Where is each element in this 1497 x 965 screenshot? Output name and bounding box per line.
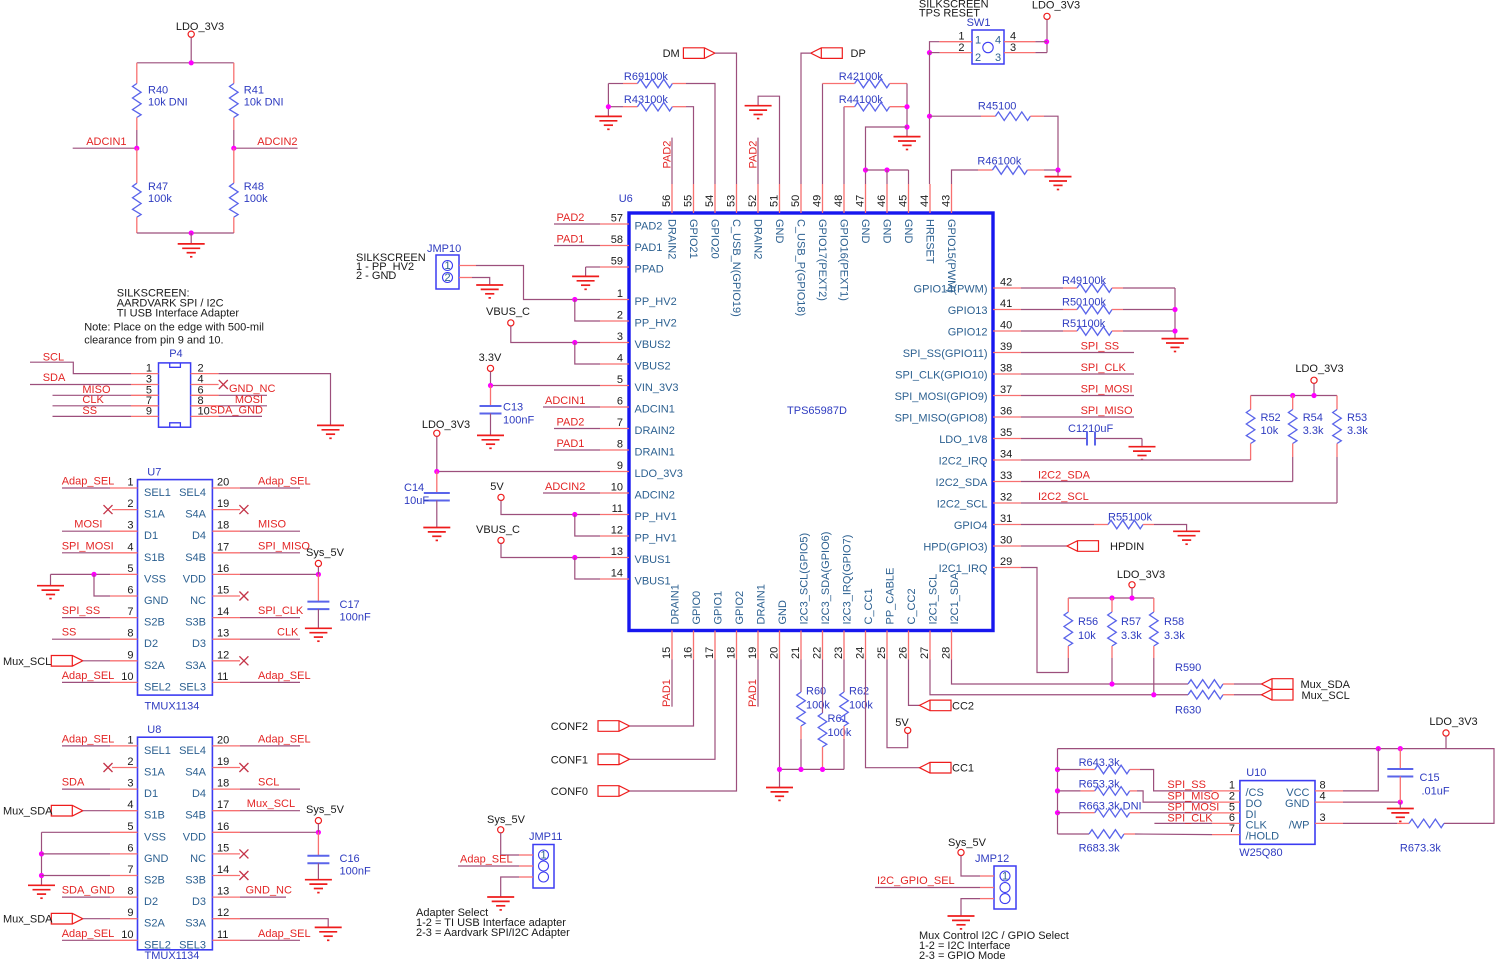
svg-text:8: 8 — [1320, 779, 1326, 791]
svg-text:SEL3: SEL3 — [179, 681, 206, 693]
svg-text:20: 20 — [769, 647, 781, 659]
svg-text:5V: 5V — [490, 481, 504, 493]
svg-text:11: 11 — [217, 929, 228, 941]
port flag CONF1 — [598, 754, 630, 765]
svg-text:Adap_SEL: Adap_SEL — [62, 476, 115, 488]
svg-text:100nF: 100nF — [340, 612, 371, 624]
junction VBUS1 junction — [572, 555, 577, 560]
junction C15 tap — [1398, 746, 1403, 751]
svg-text:100nF: 100nF — [503, 415, 534, 427]
svg-text:24: 24 — [855, 647, 867, 659]
junction R45/R46 junction — [1055, 167, 1060, 172]
wire SPI_SS to U7.7 — [62, 617, 110, 619]
resistor body R58 — [1150, 612, 1159, 646]
resistor body R53 — [1333, 410, 1342, 444]
svg-text:Adap_SEL: Adap_SEL — [258, 733, 311, 745]
wire VCC to bus — [1343, 749, 1378, 791]
pin P4 pin 7 — [131, 405, 159, 407]
svg-text:R52: R52 — [1261, 412, 1281, 424]
svg-text:10: 10 — [121, 671, 133, 683]
wire SCL into P4.1 — [30, 362, 131, 373]
wire R55 to gnd — [1154, 525, 1187, 532]
junction R50 junction — [1172, 307, 1177, 312]
svg-text:GND: GND — [859, 219, 871, 244]
pin JMP11 pin 3 — [519, 876, 533, 878]
capacitor body C17 — [307, 602, 329, 610]
port flag Mux_SCL U7.9 — [51, 656, 83, 667]
capacitor C15 — [1399, 749, 1401, 769]
svg-text:GPIO4: GPIO4 — [954, 520, 988, 532]
wire U8 VSS down — [41, 832, 43, 885]
resistor R53 — [1336, 396, 1338, 410]
wire Adap_SEL U7.11 — [240, 681, 300, 683]
svg-text:4: 4 — [1010, 31, 1016, 43]
wire I2C1_SCL to Mux_SCL — [930, 660, 1188, 695]
svg-text:59: 59 — [611, 256, 623, 268]
svg-text:S2A: S2A — [144, 918, 165, 930]
svg-text:SS: SS — [82, 405, 97, 417]
pin U8 pin 12 — [212, 918, 240, 920]
no-connect X P4 pin 4 — [219, 380, 228, 389]
wire R64 to /CS — [1140, 770, 1212, 791]
ground JMP12 — [948, 916, 975, 929]
svg-text:34: 34 — [1000, 449, 1012, 461]
pin U6 pin 43 — [951, 184, 953, 213]
junction ADCIN1 tap — [134, 146, 139, 151]
wire Adap_SEL U7.20 — [240, 487, 300, 489]
svg-text:SPI_MOSI: SPI_MOSI — [1081, 384, 1133, 396]
no-connect X U8 pin 14 — [239, 871, 248, 880]
svg-text:I2C3_SCL(GPIO5): I2C3_SCL(GPIO5) — [799, 533, 811, 625]
wire ADCIN2 stub U6.10 — [543, 492, 600, 494]
pin U8 pin 6 — [110, 853, 138, 855]
svg-text:DRAIN1: DRAIN1 — [756, 584, 768, 624]
svg-text:S1A: S1A — [144, 767, 165, 779]
svg-text:C15: C15 — [1420, 772, 1440, 784]
wire I2C2_SCL to R53 — [1021, 502, 1337, 504]
pin P4 pin 2 — [191, 373, 219, 375]
svg-text:GND: GND — [144, 853, 169, 865]
svg-text:7: 7 — [1229, 823, 1235, 835]
svg-text:9: 9 — [127, 649, 133, 661]
svg-text:U7: U7 — [147, 467, 161, 479]
ground U10 GND — [1387, 809, 1414, 822]
svg-text:JMP11: JMP11 — [529, 831, 562, 843]
svg-text:SDA: SDA — [43, 372, 66, 384]
resistor R56 — [1067, 598, 1069, 612]
pin U6 pin 51 — [779, 184, 781, 213]
svg-text:50: 50 — [790, 195, 802, 207]
svg-text:7: 7 — [617, 417, 623, 429]
wire R68 to /HOLD — [1135, 833, 1212, 836]
wire R64 left — [1058, 769, 1081, 771]
svg-text:1: 1 — [540, 850, 546, 862]
port flag Mux_SDA — [1262, 679, 1294, 690]
pin U6 pin 39 — [993, 352, 1021, 354]
pin U8 pin 3 — [110, 788, 138, 790]
pin U10 pin 8 — [1315, 790, 1343, 792]
svg-text:37: 37 — [1000, 384, 1012, 396]
svg-text:Mux_SCL: Mux_SCL — [3, 656, 51, 668]
svg-text:Mux_SCL: Mux_SCL — [247, 798, 295, 810]
wire PP_HV2 to pin2 — [575, 300, 600, 322]
svg-text:17: 17 — [217, 799, 229, 811]
svg-text:7: 7 — [127, 864, 133, 876]
pin U6 pin 13 — [600, 557, 629, 559]
wire CONF1 to pin — [630, 660, 716, 760]
wire pin22 to R61 — [822, 660, 824, 714]
wire pin21 to R60 — [800, 660, 802, 693]
pin U7 pin 18 — [212, 530, 240, 532]
wire divider top bus — [137, 62, 234, 64]
pin U6 pin 3 — [600, 342, 629, 344]
wire GND pins bus — [866, 169, 909, 171]
wire R65 to DO — [1137, 791, 1212, 802]
svg-text:9: 9 — [617, 460, 623, 472]
pin U7 pin 5 — [110, 573, 138, 575]
svg-text:S2B: S2B — [144, 617, 165, 629]
pin U6 pin 42 — [993, 287, 1021, 289]
wire Adap_SEL U8.20 — [240, 745, 300, 747]
svg-text:GPIO14(PWM): GPIO14(PWM) — [914, 284, 988, 296]
svg-text:I2C1_SDA: I2C1_SDA — [949, 572, 961, 625]
svg-text:SCL: SCL — [258, 777, 279, 789]
pin U7 pin 10 — [110, 681, 138, 683]
no-connect X U7 pin 12 — [239, 656, 248, 665]
junction VCC tap — [1376, 746, 1381, 751]
svg-text:15: 15 — [217, 842, 229, 854]
power VBUS_C VBUS_C upper — [508, 320, 514, 326]
wire PAD2 stub U6.57 — [554, 223, 600, 225]
svg-text:R55100k: R55100k — [1108, 512, 1153, 524]
svg-text:Sys_5V: Sys_5V — [306, 547, 345, 559]
svg-text:JMP10: JMP10 — [427, 243, 461, 255]
wire bottom gnd bus — [780, 768, 845, 770]
wire JMP12.3 to gnd — [961, 899, 980, 916]
pin U8 pin 1 — [110, 745, 138, 747]
ground R55 — [1173, 531, 1200, 544]
svg-text:SEL2: SEL2 — [144, 681, 171, 693]
wire GND to C15 bottom — [1343, 801, 1400, 803]
pin U6 pin 10 — [600, 492, 629, 494]
wire SCL U8.18 — [240, 788, 300, 790]
svg-text:100k: 100k — [148, 193, 172, 205]
resistor body R51 — [1077, 327, 1112, 336]
pin U7 pin 20 — [212, 487, 240, 489]
svg-text:PP_HV1: PP_HV1 — [635, 533, 677, 545]
port flag Mux_SCL — [1262, 689, 1294, 700]
svg-text:SEL2: SEL2 — [144, 939, 171, 951]
svg-text:6: 6 — [617, 396, 623, 408]
resistor body R60 — [797, 692, 806, 726]
pin U6 pin 11 — [600, 514, 629, 516]
svg-text:TPS65987D: TPS65987D — [787, 405, 847, 417]
svg-text:SDA: SDA — [62, 777, 85, 789]
wire R69 to pin54 — [686, 84, 715, 185]
pin U6 pin 36 — [993, 416, 1021, 418]
svg-text:C_USB_P(GPIO18): C_USB_P(GPIO18) — [795, 219, 807, 316]
pin U6 pin 16 — [693, 631, 695, 660]
svg-text:Sys_5V: Sys_5V — [306, 804, 345, 816]
wire SPI_MISO U7.17 — [240, 552, 300, 554]
wire U8.12 to gnd — [240, 919, 328, 928]
pin U6 pin 7 — [600, 428, 629, 430]
svg-text:GPIO17(PEXT2): GPIO17(PEXT2) — [816, 219, 828, 301]
junction U7 VDD — [316, 572, 321, 577]
pin U6 pin 32 — [993, 502, 1021, 504]
resistor body R61 — [818, 713, 827, 747]
wire MISO into P4.5 — [53, 394, 132, 396]
wire P4.6 GND_NC stub — [219, 394, 267, 396]
svg-text:S2B: S2B — [144, 875, 165, 887]
svg-text:VBUS1: VBUS1 — [635, 576, 671, 588]
resistor body R63 — [1188, 690, 1223, 699]
junction VIN_3V3 junction — [488, 383, 493, 388]
svg-text:D4: D4 — [192, 788, 206, 800]
wire GND bus drop — [779, 660, 781, 788]
svg-text:25: 25 — [876, 647, 888, 659]
svg-text:ADCIN1: ADCIN1 — [635, 404, 675, 416]
svg-text:26: 26 — [898, 647, 910, 659]
svg-text:2: 2 — [127, 756, 133, 768]
wire pin43 to R46 — [952, 170, 979, 184]
resistor body R64 — [1095, 765, 1130, 774]
wire JMP10.1 to PP_HV2 — [476, 266, 600, 300]
svg-text:SPI_CLK: SPI_CLK — [1081, 362, 1127, 374]
no-connect X U8 pin 19 — [239, 763, 248, 772]
svg-text:VBUS1: VBUS1 — [635, 554, 671, 566]
capacitor body C12 — [1087, 432, 1095, 446]
ground U8 pin12 — [315, 927, 342, 940]
wire SS to U7.8 — [52, 638, 110, 640]
svg-text:C13: C13 — [503, 402, 523, 414]
svg-text:57: 57 — [611, 213, 623, 225]
svg-text:10k DNI: 10k DNI — [148, 97, 188, 109]
wire Adap_SEL U8.10 — [62, 939, 110, 941]
pin U6 pin 40 — [993, 330, 1021, 332]
svg-text:U10: U10 — [1246, 767, 1266, 779]
svg-text:36: 36 — [1000, 406, 1012, 418]
power Sys_5V Sys_5V JMP12 — [958, 849, 964, 855]
svg-text:PAD2: PAD2 — [635, 221, 663, 233]
svg-text:PP_HV1: PP_HV1 — [635, 511, 677, 523]
pin U7 pin 12 — [212, 660, 240, 662]
svg-text:SPI_MISO: SPI_MISO — [1081, 405, 1133, 417]
pin U6 pin 56 — [671, 184, 673, 213]
svg-text:JMP12: JMP12 — [975, 853, 1009, 865]
pin U6 pin 15 — [671, 631, 673, 660]
svg-text:GPIO21: GPIO21 — [687, 219, 699, 259]
pin U8 pin 4 — [110, 810, 138, 812]
svg-text:100k: 100k — [849, 700, 873, 712]
svg-text:VDD: VDD — [183, 573, 206, 585]
power LDO_3V3 LDO_3V3 SW1 — [1044, 13, 1050, 19]
junction LDO tap mux — [1129, 595, 1134, 600]
capacitor C13 — [490, 386, 492, 407]
wire P4.2 to ground — [219, 374, 331, 426]
power 3.3V 3.3V — [487, 365, 493, 371]
svg-text:8: 8 — [127, 628, 133, 640]
junction R65 tap — [1055, 788, 1060, 793]
pin U6 pin 22 — [822, 631, 824, 660]
power LDO_3V3 LDO_3V3 pullups — [1311, 377, 1317, 383]
junction SW1 left junction — [927, 50, 932, 55]
wire GND hook U6.51 — [758, 96, 779, 184]
pin U6 pin 54 — [714, 184, 716, 213]
svg-text:LDO_3V3: LDO_3V3 — [1032, 0, 1080, 12]
resistor body R50 — [1077, 305, 1112, 314]
resistor body R45 — [995, 112, 1030, 121]
svg-text:1: 1 — [617, 288, 623, 300]
svg-text:VSS: VSS — [144, 573, 166, 585]
svg-text:Adap_SEL: Adap_SEL — [258, 476, 311, 488]
pin JMP12 pin 3 — [980, 898, 994, 900]
capacitor C17 — [317, 574, 319, 601]
svg-text:D3: D3 — [192, 896, 206, 908]
wire SPI_MOSI to U7.4 — [62, 552, 110, 554]
pin U6 pin 58 — [600, 245, 629, 247]
wire U8 GND wire — [42, 853, 111, 855]
svg-text:SPI_MISO(GPIO8): SPI_MISO(GPIO8) — [895, 413, 988, 425]
svg-text:S3B: S3B — [185, 617, 206, 629]
wire to ground stem — [190, 233, 192, 244]
svg-text:NC: NC — [190, 595, 206, 607]
wire GND jog U7.6 — [94, 574, 110, 596]
svg-text:SS: SS — [62, 627, 77, 639]
svg-text:/HOLD: /HOLD — [1246, 831, 1280, 843]
svg-text:41: 41 — [1000, 298, 1012, 310]
wire VBUS2 to pin4 — [575, 343, 600, 365]
svg-text:2: 2 — [127, 498, 133, 510]
svg-text:D2: D2 — [144, 896, 158, 908]
svg-text:I2C3_IRQ(GPIO7): I2C3_IRQ(GPIO7) — [842, 535, 854, 625]
junction SW1 right junction — [1044, 39, 1049, 44]
wire R43 to pin55 — [686, 107, 694, 184]
svg-text:5: 5 — [127, 563, 133, 575]
svg-text:HPDIN: HPDIN — [1110, 541, 1144, 553]
svg-text:Adap_SEL: Adap_SEL — [62, 928, 115, 940]
svg-text:30: 30 — [1000, 535, 1012, 547]
ground P4 pin2 — [317, 425, 344, 438]
svg-text:CONF1: CONF1 — [551, 754, 588, 766]
junction GND pins junction b — [884, 167, 889, 172]
wire R45 left — [930, 115, 982, 117]
svg-text:NC: NC — [190, 853, 206, 865]
svg-text:14: 14 — [217, 864, 229, 876]
svg-text:Mux_SCL: Mux_SCL — [1302, 690, 1350, 702]
svg-text:D1: D1 — [144, 788, 158, 800]
no-connect X U8 pin 2 — [104, 763, 113, 772]
junction gnd bus c — [820, 767, 825, 772]
wire DP to pin50 — [801, 53, 811, 184]
svg-text:S2A: S2A — [144, 660, 165, 672]
pin U6 pin 44 — [929, 184, 931, 213]
resistor body R65 — [1095, 787, 1130, 796]
pin U6 pin 52 — [757, 184, 759, 213]
port flag CC1 — [920, 762, 952, 773]
resistor body R44 — [855, 102, 890, 111]
svg-text:6: 6 — [127, 585, 133, 597]
svg-text:D1: D1 — [144, 530, 158, 542]
pin U6 pin 25 — [886, 631, 888, 660]
svg-text:ADCIN1: ADCIN1 — [86, 136, 126, 148]
wire Mux_SDA to U8.9 — [83, 918, 110, 920]
wire LDO_3V3 drop SW1 — [1046, 20, 1048, 53]
pin U6 pin 55 — [693, 184, 695, 213]
svg-text:48: 48 — [833, 195, 845, 207]
junction divider bottom — [189, 230, 194, 235]
pin U7 pin 11 — [212, 681, 240, 683]
svg-text:9: 9 — [146, 405, 152, 417]
pin U6 pin 28 — [951, 631, 953, 660]
svg-text:49: 49 — [812, 195, 824, 207]
svg-text:3.3k: 3.3k — [1303, 425, 1324, 437]
junction R66 tap — [1055, 810, 1060, 815]
wire R42 to pin49 — [822, 84, 824, 185]
wire Sys_5V stem — [317, 567, 319, 575]
power LDO_3V3 LDO_3V3 mux pullups — [1129, 582, 1135, 588]
svg-text:PP_HV2: PP_HV2 — [635, 296, 677, 308]
port flag CONF0 — [598, 786, 630, 797]
wire R68 left — [1058, 833, 1090, 835]
svg-text:SEL4: SEL4 — [179, 745, 206, 757]
pin U8 pin 18 — [212, 788, 240, 790]
svg-text:2: 2 — [444, 272, 450, 284]
svg-text:R673.3k: R673.3k — [1400, 843, 1441, 855]
resistor body R57 — [1108, 612, 1117, 646]
svg-text:1: 1 — [1002, 871, 1008, 883]
wire mux pullup bus — [1068, 597, 1154, 599]
svg-text:17: 17 — [217, 541, 229, 553]
wire I2C2_IRQ to R52 — [1021, 459, 1251, 461]
pin U8 pin 14 — [212, 875, 240, 877]
svg-text:GPIO0: GPIO0 — [691, 591, 703, 625]
power LDO_3V3 LDO_3V3 U10 — [1443, 730, 1449, 736]
svg-text:Mux_SDA: Mux_SDA — [3, 806, 53, 818]
svg-text:PAD2: PAD2 — [557, 212, 585, 224]
pin U6 pin 9 — [600, 471, 629, 473]
svg-text:LDO_1V8: LDO_1V8 — [939, 434, 987, 446]
resistor body R66 — [1095, 808, 1130, 817]
svg-text:I2C2_IRQ: I2C2_IRQ — [939, 456, 988, 468]
pin U7 pin 17 — [212, 552, 240, 554]
wire R63 to Mux_SCL port — [1234, 694, 1262, 696]
pin U7 pin 9 — [110, 660, 138, 662]
svg-text:S3A: S3A — [185, 660, 206, 672]
pin U8 pin 17 — [212, 810, 240, 812]
svg-text:Adap_SEL: Adap_SEL — [62, 670, 115, 682]
wire SW1.1 jog — [930, 42, 940, 53]
pin U7 pin 13 — [212, 638, 240, 640]
ground C16 — [305, 880, 332, 893]
svg-text:13: 13 — [217, 628, 229, 640]
ground C12 — [1129, 447, 1156, 460]
pin U8 pin 13 — [212, 896, 240, 898]
capacitor body C16 — [307, 856, 329, 864]
svg-text:GPIO2: GPIO2 — [734, 591, 746, 625]
pin U6 pin 31 — [993, 524, 1021, 526]
svg-text:10k: 10k — [1078, 630, 1096, 642]
no-connect X U7 pin 2 — [104, 505, 113, 514]
svg-text:TPS RESET: TPS RESET — [919, 8, 980, 20]
wire Mux_SCL U8.17 — [240, 810, 300, 812]
pin P4 pin 9 — [131, 415, 159, 417]
wire R46 right — [1044, 169, 1058, 171]
pin U8 pin 9 — [110, 918, 138, 920]
svg-text:SEL3: SEL3 — [179, 939, 206, 951]
wire divider bottom bus — [137, 232, 234, 234]
pin U6 pin 37 — [993, 395, 1021, 397]
